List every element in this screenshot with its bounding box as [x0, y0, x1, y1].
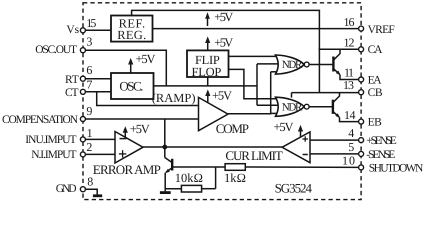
svg-text:3: 3: [86, 35, 92, 49]
svg-text:+5V: +5V: [214, 10, 233, 24]
wire NOR B input 2 stub: [257, 104, 279, 106]
pin 15 circle: [80, 28, 85, 33]
IC dashed border: [83, 3, 361, 200]
wire NOR A input 3 stub: [271, 71, 279, 73]
svg-text:+5V: +5V: [130, 122, 150, 136]
wire VREF line REF.REG to pin 16: [153, 28, 362, 30]
wire NOR A output to transistor A base: [309, 64, 333, 66]
transistor Q3 collector: [165, 158, 172, 163]
cur limit minus sign: [303, 154, 308, 156]
transistor Q2 (output B) base bar: [332, 100, 334, 114]
pin 12 circle: [359, 47, 364, 52]
svg-text:RT: RT: [65, 74, 79, 86]
NOR gate B: [276, 97, 305, 116]
wire INV input pin1 to error amp: [83, 138, 115, 140]
node junction dot (error amp / cur limit / comp): [162, 145, 167, 150]
svg-text:OSC.OUT: OSC.OUT: [35, 44, 77, 56]
wire OSC blanking vertical to both NOR gates: [256, 64, 258, 105]
transistor Q1 (output A) base bar: [332, 57, 334, 72]
wire OSC output line: [154, 85, 258, 87]
svg-text:+5V: +5V: [136, 52, 156, 66]
supply arrow OSC: [130, 61, 132, 73]
wire Q3 base to shutdown net: [172, 166, 225, 168]
svg-text:9: 9: [86, 104, 92, 118]
pin 1 circle: [80, 137, 85, 142]
svg-text:1kΩ: 1kΩ: [224, 171, 246, 185]
pin 7 circle: [80, 89, 85, 94]
pin 9 circle: [80, 117, 85, 122]
pin 8 circle: [80, 187, 85, 192]
wire NOR B output to transistor B base: [309, 106, 333, 108]
supply arrow cur limit: [300, 128, 302, 137]
svg-text:REG.: REG.: [117, 28, 146, 42]
svg-text:14: 14: [344, 108, 356, 122]
pin 6 circle: [80, 76, 85, 81]
pin 14 circle: [359, 119, 364, 124]
wire RT pin6 to OSC: [83, 78, 111, 80]
pin 3 circle: [80, 48, 85, 53]
wire drop from CB line into NOR B top edge: [291, 93, 293, 98]
resistor R1 1kOhm: [225, 164, 245, 171]
wire +5V rail from REF.REG top across to transistor collectors: [132, 10, 320, 92]
ground symbol (Q3): [160, 191, 171, 194]
svg-text:1: 1: [87, 126, 93, 140]
pin 2 circle: [80, 152, 85, 157]
pin 16 circle: [359, 26, 364, 31]
supply arrow error amp: [124, 129, 126, 137]
wire emitter B to EB pin 14: [340, 117, 362, 121]
wire GND pin8: [83, 189, 97, 195]
svg-text:15: 15: [86, 16, 96, 30]
svg-text:EB: EB: [368, 116, 383, 128]
svg-text:FLOP: FLOP: [192, 65, 222, 79]
wire 1k to SHUTDOWN pin 10: [245, 166, 361, 168]
svg-text:EA: EA: [368, 74, 383, 86]
svg-text:8: 8: [87, 174, 93, 188]
svg-text:(RAMP): (RAMP): [152, 91, 196, 105]
svg-text:VREF: VREF: [368, 24, 395, 36]
wire Q3 emitter down to ground: [164, 173, 166, 192]
svg-text:5: 5: [348, 140, 354, 154]
wire NOR A input 2 stub: [257, 63, 280, 65]
error amp triangle: [115, 132, 143, 164]
svg-text:10kΩ: 10kΩ: [175, 171, 203, 185]
wire error amp output to junction: [143, 146, 165, 148]
svg-text:CT: CT: [65, 87, 79, 99]
NOR gate A output bubble: [304, 62, 309, 67]
supply arrow on +5V rail: [207, 16, 209, 26]
error amp minus sign: [120, 138, 127, 140]
svg-text:+SENSE: +SENSE: [366, 135, 397, 147]
wire 10k branch vertical: [215, 167, 217, 189]
wire FF output 2 to NOR B input 1: [228, 69, 278, 98]
svg-text:+5V: +5V: [214, 36, 233, 50]
wire FF output 1 to NOR A input 1: [228, 55, 278, 57]
svg-text:12: 12: [344, 35, 355, 49]
wire COMP output to NOR gates: [228, 72, 271, 114]
svg-text:GND: GND: [56, 183, 77, 195]
wire OSC.OUT pin3 to oscillator output node: [83, 50, 166, 86]
svg-text:NDR: NDR: [282, 59, 303, 71]
svg-text:CA: CA: [368, 44, 383, 56]
ground symbol (pin 8): [93, 194, 102, 197]
svg-text:COMP: COMP: [216, 121, 249, 136]
svg-text:COMPENSATION: COMPENSATION: [2, 114, 79, 126]
transistor Q1 collector: [333, 49, 340, 60]
svg-text:NDR: NDR: [282, 101, 303, 113]
COMP triangle: [199, 97, 229, 130]
svg-text:+5V: +5V: [274, 120, 294, 134]
wire NI input pin2 to error amp: [83, 153, 115, 155]
wire COMPENSATION pin9 to COMP input: [83, 118, 199, 120]
svg-text:ERROR AMP: ERROR AMP: [93, 162, 161, 177]
OSC block: [111, 73, 154, 99]
transistor Q3 emitter with arrow: [166, 168, 172, 172]
svg-text:+5V: +5V: [212, 89, 232, 103]
wire NOR B input 3 stub: [271, 112, 279, 114]
pin 11 circle: [359, 77, 364, 82]
wire +SENSE pin 4 to cur limit: [310, 139, 361, 141]
svg-text:6: 6: [86, 63, 92, 77]
wire CT ramp branch to COMP input: [97, 92, 199, 106]
pin 5 circle: [359, 151, 364, 156]
wire emitter A to EA pin 11: [340, 75, 361, 80]
svg-text:16: 16: [344, 15, 355, 29]
svg-text:CUR LIMIT: CUR LIMIT: [225, 148, 282, 163]
svg-text:10: 10: [342, 154, 355, 168]
error amp plus sign: [119, 150, 126, 157]
transistor Q2 emitter with arrow: [333, 111, 339, 117]
wire FLIP FLOP clock riser from OSC line: [207, 77, 209, 86]
svg-text:2: 2: [86, 140, 92, 154]
svg-text:OSC.: OSC.: [119, 78, 143, 93]
resistor R2 10kOhm: [181, 185, 201, 192]
wire collector A / CA pin 12 line: [319, 48, 362, 50]
pin 4 circle: [359, 138, 364, 143]
transistor Q2 collector: [333, 93, 340, 103]
wire junction right to cur limit output: [165, 146, 282, 148]
NOR gate A: [276, 55, 305, 74]
wire Vs pin15 to REF.REG: [83, 29, 111, 31]
wire junction down to Q3 collector: [164, 147, 166, 158]
FLIP FLOP block: [187, 50, 229, 77]
cur limit triangle (points left): [282, 132, 310, 163]
wire junction up to compensation line: [164, 119, 166, 147]
cur limit plus sign: [303, 136, 308, 141]
wire collector B / CB pin 13 line: [292, 92, 362, 94]
wire 10k right side: [202, 188, 216, 190]
wire 10k line from emitter: [165, 188, 181, 190]
supply arrow COMP: [207, 93, 209, 103]
svg-text:CB: CB: [368, 87, 383, 99]
svg-text:13: 13: [343, 78, 354, 92]
svg-text:SHUTDOWN: SHUTDOWN: [369, 163, 424, 175]
svg-text:N.I.IMPUT: N.I.IMPUT: [31, 149, 76, 161]
svg-text:-SENSE: -SENSE: [366, 149, 395, 161]
supply arrow FLIP FLOP: [207, 40, 209, 51]
transistor Q1 emitter with arrow: [333, 69, 339, 75]
svg-text:Vs: Vs: [66, 24, 79, 36]
REF.REG block: [111, 16, 153, 42]
svg-text:4: 4: [348, 126, 354, 140]
wire CT pin7 to OSC: [83, 91, 111, 93]
wire -SENSE pin 5 to cur limit: [310, 153, 361, 155]
pin 13 circle: [359, 90, 364, 95]
svg-text:INU.IMPUT: INU.IMPUT: [25, 134, 76, 146]
transistor Q3 (shutdown) base bar: [171, 159, 173, 171]
pin 10 circle: [359, 165, 364, 170]
NOR gate B output bubble: [304, 104, 309, 109]
svg-text:SG3524: SG3524: [275, 181, 313, 196]
svg-text:7: 7: [86, 78, 92, 92]
